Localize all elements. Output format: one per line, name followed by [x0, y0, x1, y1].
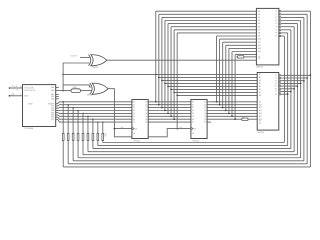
junction dot net E3 [225, 110, 227, 112]
wire U5 output 1 to right bus vertical [281, 74, 311, 76]
junction dot R2 top [67, 104, 69, 106]
svg-text:RB7: RB7 [51, 119, 54, 121]
output bubble U4 pin 9 [279, 35, 281, 37]
wire net E0: U4 left pin 9 wraps down to U3-U5 line [217, 35, 257, 37]
wire net DB1: U4 pin bubble to right-edge vertical to bottom bus [281, 13, 307, 15]
wire net D7: U4 left pin 8 wraps left and down to U3 input [177, 32, 256, 34]
svg-text:D2: D2 [192, 107, 194, 109]
wire U3 output 5 to U5 lower input [207, 115, 257, 117]
junction dot clock at U2 branch [114, 128, 116, 130]
resistor R2 vertical body [67, 105, 69, 134]
junction dot U5 output 8 on bus [287, 93, 289, 95]
svg-text:15: 15 [17, 90, 19, 92]
wire net D3: U4 left pin 4 wraps left and down to U3 input [165, 20, 256, 22]
svg-text:RB6: RB6 [51, 117, 54, 119]
junction dot sync at left vertical [62, 74, 64, 76]
junction dot R9 top [102, 121, 104, 123]
junction dot net D2 end [161, 107, 163, 109]
svg-text:CLK: CLK [180, 127, 183, 129]
svg-text:Y1: Y1 [275, 75, 277, 77]
wire XOR U1A output to U4 pin 16 [107, 59, 257, 61]
wire RB6: PIC pin to U2 shift register input [56, 117, 132, 119]
svg-text:G2: G2 [258, 58, 260, 60]
svg-text:Y5: Y5 [275, 86, 277, 88]
wire RB1: PIC pin to U2 shift register input [56, 105, 132, 106]
svg-text:D5: D5 [192, 116, 194, 118]
schematic canvas [0, 0, 320, 178]
junction dot net D5 branch [170, 89, 172, 91]
wire RB7: PIC pin to U2 shift register input [56, 119, 132, 122]
stub PIC RA4 pin [56, 98, 59, 100]
svg-text:74HC165: 74HC165 [192, 140, 199, 142]
shift register U2 74HC164 body [132, 100, 148, 139]
junction dot U5 output 3 on bus [303, 80, 305, 82]
svg-text:D1: D1 [192, 104, 194, 106]
svg-text:G1: G1 [259, 121, 261, 123]
svg-text:Q1: Q1 [145, 104, 147, 106]
wire net D4: U4 left pin 5 wraps left and down to U3 input [168, 23, 256, 25]
ceramic resonator X1 body [71, 89, 81, 93]
junction dot net D0 branch [155, 74, 157, 76]
svg-text:D7: D7 [192, 122, 194, 124]
svg-text:OSC1/CLKIN: OSC1/CLKIN [24, 88, 34, 90]
stub U3 output pin 8 [207, 121, 211, 123]
svg-text:Y1: Y1 [275, 11, 277, 13]
wire U5 output 4 to right bus vertical [281, 82, 301, 84]
output bubble U4 pin 8 [279, 32, 281, 34]
resistor R6 vertical body [87, 116, 89, 133]
output bubble U5 pin 4 [279, 83, 281, 85]
wire OSC1/CLKIN input with terminal [9, 87, 22, 89]
resistor R1 vertical body [62, 102, 64, 134]
svg-text:Q6: Q6 [204, 119, 206, 121]
junction dot U5 output 7 on bus [290, 91, 292, 93]
output bubble U5 pin 5 [279, 85, 281, 87]
wire PIC RA0 to ceramic resonator X1 [56, 90, 71, 92]
junction dot net D1 end [158, 104, 160, 106]
wire net DB2: U4 pin bubble to right-edge vertical to bottom bus [281, 16, 304, 18]
svg-text:Q2: Q2 [145, 107, 147, 109]
inline resistor R11 on U3-U5 wire [242, 118, 248, 120]
wire net DB7: U4 pin bubble to right-edge vertical to bottom bus [281, 32, 287, 34]
wire net DB5: U4 pin bubble to right-edge vertical to bottom bus [281, 26, 294, 28]
junction dot R8 top [97, 121, 99, 123]
svg-text:Y4: Y4 [275, 83, 277, 85]
clock triangle symbol U2 [132, 127, 134, 130]
svg-text:Q0: Q0 [204, 101, 206, 103]
svg-text:CLK_IN: CLK_IN [11, 86, 17, 88]
wire XOR U1A input A stub [80, 56, 90, 58]
wire XOR U1A input B from left vertical [63, 63, 90, 91]
svg-text:74HC540: 74HC540 [257, 132, 264, 134]
junction dot net D7 end [176, 128, 178, 130]
wire MCLR input with terminal [9, 95, 22, 97]
resistor R4 vertical body [77, 111, 79, 134]
junction dot U5 output 1 on bus [310, 75, 312, 77]
svg-text:Q5: Q5 [204, 116, 206, 118]
svg-text:4MHz: 4MHz [73, 87, 77, 89]
wire Q5: U2 output to U3 input [148, 115, 191, 117]
junction dot net E6 [234, 118, 236, 120]
output bubble U4 pin 1 [279, 10, 281, 12]
wire RB2: PIC pin to U2 shift register input [56, 107, 132, 110]
junction dot U5 output 4 on bus [300, 83, 302, 85]
svg-text:Y3: Y3 [275, 80, 277, 82]
wire X1 to XOR U1B input B [81, 90, 92, 92]
svg-text:OSC2/CLKOUT: OSC2/CLKOUT [24, 90, 35, 92]
wire U5 output 3 to right bus vertical [281, 80, 304, 82]
output bubble U4 pin 4 [279, 20, 281, 22]
wire U3 output 6 to U5 lower input [207, 118, 242, 120]
wire U3 output 1 to U5 lower input [207, 104, 257, 106]
wire U3 output 3 to U5 lower input [207, 110, 257, 112]
wire net D0: U4 left pin 1 wraps left and down to U3 input [156, 10, 257, 12]
resistor R8 vertical body [97, 122, 99, 133]
junction dot net D7 branch [176, 95, 178, 97]
wire Q2: U2 output to U3 input [148, 107, 191, 109]
svg-text:Q3: Q3 [145, 110, 147, 112]
output bubble U5 pin 1 [279, 75, 281, 77]
svg-text:74HC86: 74HC86 [87, 95, 93, 97]
junction dot net E5 [231, 116, 233, 118]
svg-text:Q7: Q7 [204, 122, 206, 124]
svg-text:D5: D5 [133, 116, 135, 118]
wire Q1: U2 output to U3 input [148, 104, 191, 106]
junction dot R7 top [92, 118, 94, 120]
xor gate U1B body [92, 83, 108, 94]
svg-text:4: 4 [20, 94, 21, 96]
svg-text:RB2: RB2 [51, 108, 54, 110]
wire clock branch to U2 CLK pin [114, 128, 131, 130]
junction dot net E0 [216, 101, 218, 103]
svg-text:D4: D4 [192, 113, 194, 115]
junction dot net D1 branch [158, 77, 160, 79]
svg-text:100: 100 [242, 117, 245, 119]
wire sync net from vertical junction to group-1 vertical 0 [63, 73, 156, 75]
output bubble U5 pin 3 [279, 80, 281, 82]
wire net DB6: U4 pin bubble to right-edge vertical to bottom bus [281, 29, 291, 31]
output bubble U5 pin 2 [279, 77, 281, 79]
svg-text:D3: D3 [133, 110, 135, 112]
resistor R9 vertical body [102, 122, 104, 133]
svg-text:Q2: Q2 [204, 107, 206, 109]
svg-text:Q4: Q4 [204, 113, 206, 115]
junction dot R4 top [77, 110, 79, 112]
svg-text:INPUT: INPUT [28, 104, 33, 106]
wire net D6: U4 left pin 7 wraps left and down to U3 input [174, 29, 256, 31]
xor gate U1B input arc [90, 83, 92, 94]
svg-text:74HC165: 74HC165 [133, 140, 140, 142]
junction dot net E4 [228, 113, 230, 115]
svg-text:Y4: Y4 [275, 20, 277, 22]
wire U3 output 2 to U5 lower input [207, 107, 257, 109]
wire U5 output 2 to right bus vertical [281, 77, 307, 79]
svg-text:16: 16 [20, 86, 22, 88]
xor gate U1A input arc [89, 55, 91, 66]
svg-text:Q4: Q4 [145, 113, 147, 115]
svg-text:Q1: Q1 [204, 104, 206, 106]
junction dot net D6 branch [173, 92, 175, 94]
output bubble U5 pin 7 [279, 91, 281, 93]
resistor R5 vertical body [82, 113, 84, 133]
wire U5 output 7 to right bus vertical [281, 91, 291, 93]
output bubble U4 pin 3 [279, 17, 281, 19]
junction dot net D6 end [173, 118, 175, 120]
clock triangle symbol U3 [191, 127, 193, 130]
junction dot net D4 end [167, 113, 169, 115]
svg-text:VPP: VPP [11, 94, 14, 96]
svg-text:Y8: Y8 [275, 33, 277, 35]
stub PIC RA2 pin [56, 93, 59, 95]
wire net D2: U4 left pin 3 wraps left and down to U3 input [162, 16, 257, 18]
svg-text:74HC86: 74HC86 [92, 67, 98, 69]
svg-text:SH: SH [192, 133, 194, 135]
junction dot net D5 end [170, 116, 172, 118]
wire RB4: PIC pin to U2 shift register input [56, 112, 132, 115]
svg-text:RB3: RB3 [51, 110, 54, 112]
svg-text:Y6: Y6 [275, 88, 277, 90]
svg-text:Y9: Y9 [275, 36, 277, 38]
svg-text:Y7: Y7 [275, 29, 277, 31]
output bubble U4 pin 5 [279, 23, 281, 25]
wire RB5: PIC pin to U2 shift register input [56, 115, 132, 116]
svg-text:D6: D6 [133, 119, 135, 121]
junction dot R1 top [62, 101, 64, 103]
wire net DB8: U4 pin bubble to right-edge vertical to bottom bus [281, 35, 284, 37]
junction dot net E2 [222, 107, 224, 109]
wire net D5: U4 left pin 6 wraps left and down to U3 input [171, 26, 256, 28]
wire net DB0: U4 pin bubble to right-edge vertical to bottom bus [281, 10, 310, 12]
svg-text:Y7: Y7 [275, 91, 277, 93]
svg-text:Q6: Q6 [145, 119, 147, 121]
svg-text:Q3: Q3 [204, 110, 206, 112]
junction dot U5 output 5 on bus [297, 85, 299, 87]
junction dot U5 output 2 on bus [306, 77, 308, 79]
svg-text:G1: G1 [258, 57, 260, 59]
wire U5 output 6 to right bus vertical [281, 88, 294, 90]
svg-text:Y5: Y5 [275, 23, 277, 25]
wire net DB3: U4 pin bubble to right-edge vertical to bottom bus [281, 20, 300, 22]
svg-text:D2: D2 [133, 107, 135, 109]
junction dot net D4 branch [167, 86, 169, 88]
output bubble U4 pin 6 [279, 26, 281, 28]
buffer U5 74HC540 body [257, 73, 279, 131]
svg-text:D6: D6 [192, 119, 194, 121]
svg-text:D7: D7 [133, 122, 135, 124]
svg-text:D0: D0 [192, 101, 194, 103]
svg-text:Q0: Q0 [145, 101, 147, 103]
svg-text:RB5: RB5 [51, 115, 54, 117]
wire XOR U1B input A branch from left vertical [63, 85, 91, 87]
svg-text:1k0: 1k0 [238, 54, 241, 56]
wire RB0: PIC pin to U2 shift register input [56, 102, 132, 104]
shift register U3 74HC164 body [191, 100, 207, 139]
svg-text:G2: G2 [259, 123, 261, 125]
wire RB3: PIC pin to U2 shift register input [56, 109, 132, 111]
wire Q7: U2 output to U3 input [148, 121, 191, 123]
stub PIC RA3 pin [56, 96, 59, 98]
svg-text:Q7: Q7 [145, 122, 147, 124]
wire net DB4: U4 pin bubble to right-edge vertical to bottom bus [281, 23, 297, 25]
wire net D1: U4 left pin 2 wraps left and down to U3 input [159, 13, 257, 15]
svg-text:RB1: RB1 [51, 106, 54, 108]
resistor R3 vertical body [72, 108, 74, 134]
svg-text:RB4: RB4 [51, 112, 54, 114]
svg-text:RB0/INT: RB0/INT [48, 103, 54, 105]
junction dot R5 top [82, 113, 84, 115]
svg-text:Q5: Q5 [145, 116, 147, 118]
wire U3 output 0 to U5 lower input [207, 101, 257, 103]
wire net E4: U4 left pin 13 wraps down to U3-U5 line [229, 47, 257, 49]
svg-text:74HC540: 74HC540 [256, 66, 263, 68]
wire net E3: U4 left pin 12 wraps down to U3-U5 line [226, 44, 257, 46]
wire U5 output 5 to right bus vertical [281, 85, 298, 87]
wire net E5: U4 left pin 14 wraps down to U3-U5 line [232, 51, 256, 53]
svg-text:10k: 10k [104, 134, 107, 136]
svg-text:D4: D4 [133, 113, 135, 115]
buffer U4 74HC540 body [256, 8, 279, 65]
xor gate U1A body [91, 55, 107, 66]
svg-text:Y3: Y3 [275, 17, 277, 19]
svg-text:D3: D3 [192, 110, 194, 112]
svg-text:Y2: Y2 [275, 78, 277, 80]
junction dot left vertical at U1B input B wire [62, 90, 64, 92]
svg-text:CLK: CLK [121, 127, 124, 129]
junction dot net D3 end [164, 110, 166, 112]
microcontroller U0 PIC16F84 body [23, 85, 56, 127]
wire net E1: U4 left pin 10 wraps down to U3-U5 line [220, 38, 257, 40]
wire U4 pin 15 with inline resistor R10 [236, 56, 237, 58]
wire Q6: U2 output to U3 input [148, 118, 191, 120]
junction dot net E1 [219, 104, 221, 106]
junction dot U5 output 6 on bus [293, 88, 295, 90]
stub PIC RA1 pin [56, 87, 59, 89]
wire Q4: U2 output to U3 input [148, 112, 191, 114]
wire net E6: U4 left pin 15 wraps down to U3-U5 line [235, 54, 256, 56]
wire Q0: U2 output to U3 input [148, 101, 191, 103]
resistor R7 vertical body [92, 119, 94, 133]
output bubble U5 pin 8 [279, 93, 281, 95]
svg-text:Y6: Y6 [275, 26, 277, 28]
svg-text:Y8: Y8 [275, 94, 277, 96]
output bubble U4 pin 7 [279, 29, 281, 31]
junction dot net D2 branch [161, 80, 163, 82]
svg-text:D1: D1 [133, 104, 135, 106]
inline resistor R10 body [238, 56, 244, 58]
wire net E2: U4 left pin 11 wraps down to U3-U5 line [223, 41, 257, 43]
output bubble U5 pin 6 [279, 88, 281, 90]
wire U5 output 8 to right bus vertical [281, 93, 288, 95]
wire Q3: U2 output to U3 input [148, 110, 191, 112]
svg-text:Y2: Y2 [275, 14, 277, 16]
junction dot R6 top [87, 116, 89, 118]
svg-text:D0: D0 [133, 101, 135, 103]
junction dot R3 top [72, 107, 74, 109]
svg-text:CLKOUT: CLKOUT [71, 55, 77, 57]
svg-text:SH: SH [133, 133, 135, 135]
output bubble U4 pin 2 [279, 14, 281, 16]
wire U3 output 4 to U5 lower input [207, 112, 257, 114]
junction dot net D3 branch [164, 83, 166, 85]
junction dot net D0 end [155, 101, 157, 103]
wire clock net: U1B output down to shift register clocks [108, 89, 191, 137]
